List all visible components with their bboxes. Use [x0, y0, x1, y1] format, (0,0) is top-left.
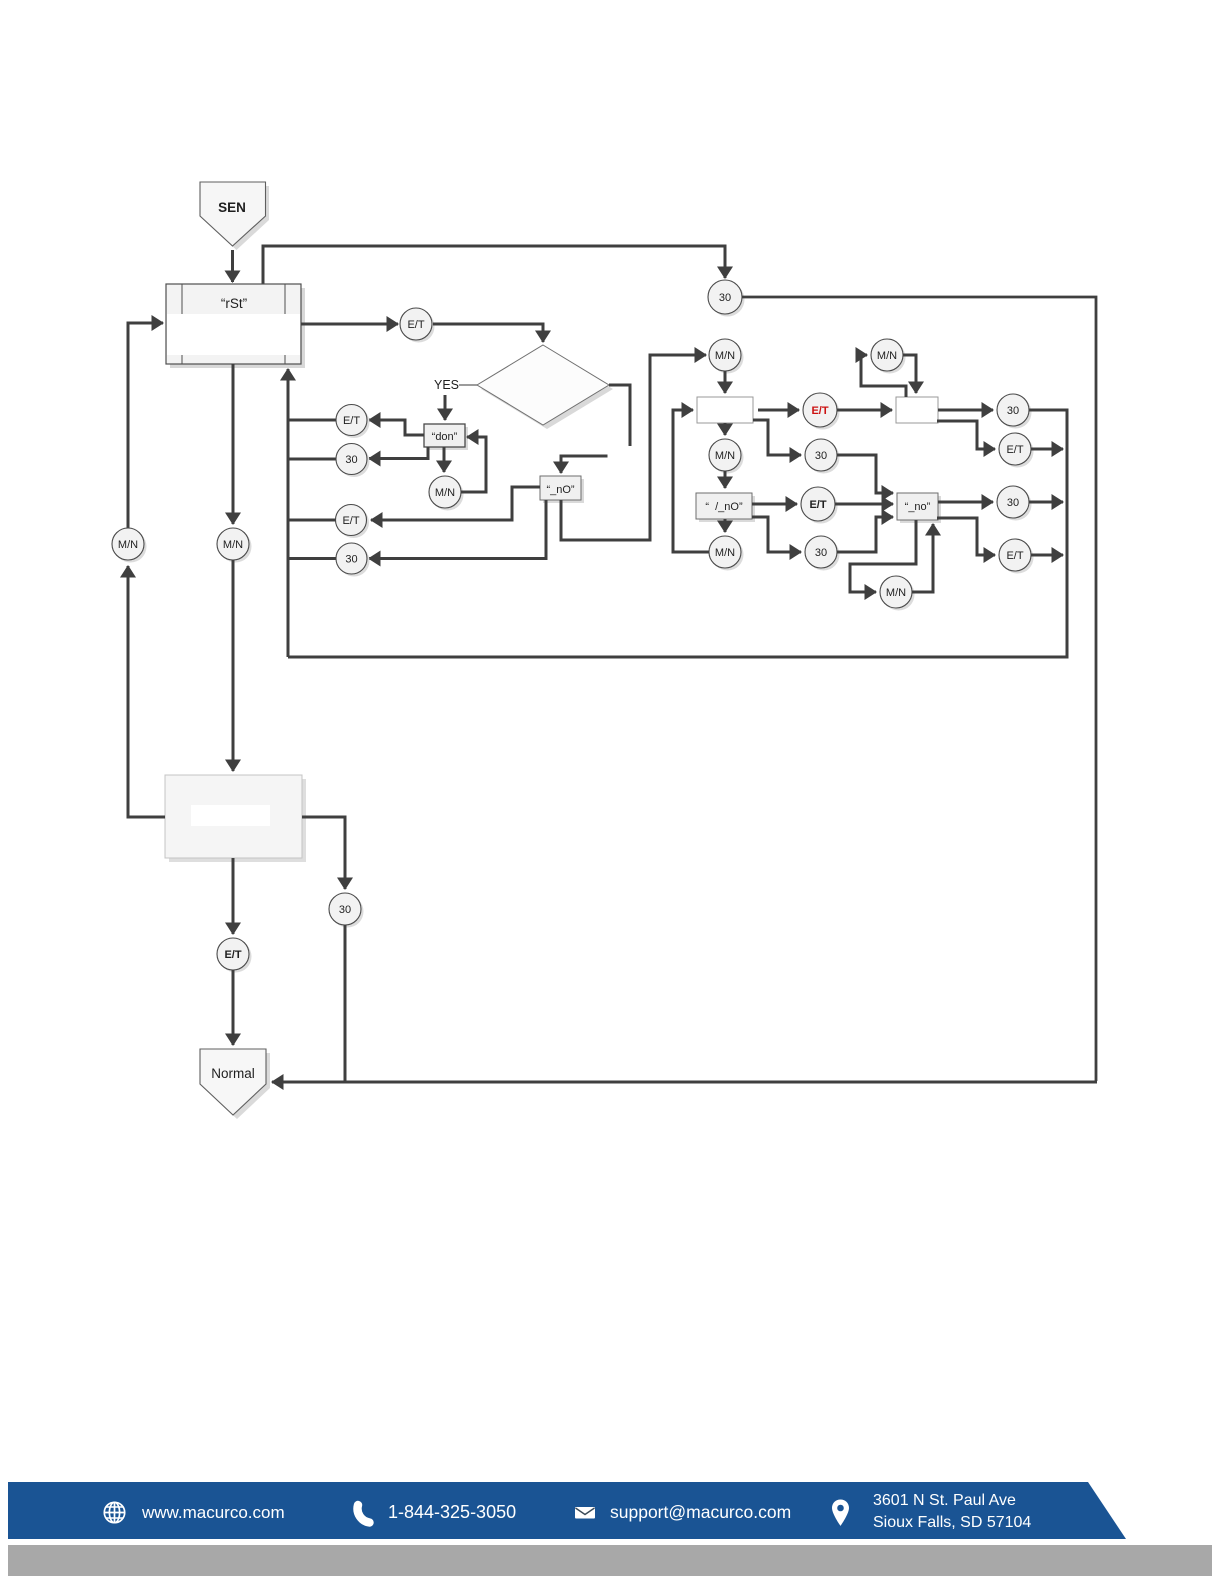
circle 30 mid [805, 439, 840, 474]
footer blue banner [8, 1482, 1126, 1539]
wire M/N low loop back to box1 [673, 410, 709, 552]
svg-text:“_no”: “_no” [905, 501, 931, 513]
wire E/T row2 to riser [288, 519, 336, 522]
svg-text:Normal: Normal [211, 1066, 255, 1081]
wire 30 row1 to riser [288, 458, 336, 461]
wire E/T row1 to riser [288, 419, 336, 422]
svg-text:30: 30 [815, 547, 827, 559]
wire don bottom to 30 row1 [369, 447, 428, 459]
circle M/N mid-left column [217, 528, 252, 563]
wire _no right to 30 [938, 501, 993, 504]
wire diamond right to "_nO" box [609, 385, 630, 446]
wire E/T down to Normal [232, 970, 235, 1045]
wire rSt-top loop to 30 [263, 246, 725, 284]
box "_nO" [540, 476, 584, 503]
wire box2 bottom to E/T right col [937, 421, 995, 449]
circle E/T right col row1 [999, 433, 1034, 468]
circle M/N low left of cluster [709, 536, 744, 571]
svg-text:E/T: E/T [224, 949, 241, 961]
wire E/T bold to _no [835, 503, 893, 506]
wire 30 top to far right rail to Normal [742, 297, 1096, 1081]
wire M/N down into box2 top [903, 355, 916, 393]
wire box2 to 30 [938, 409, 993, 412]
svg-text:30: 30 [345, 554, 357, 566]
svg-text:30: 30 [1007, 405, 1019, 417]
svg-text:YES: YES [434, 378, 459, 392]
wire 30 down to Normal rail [344, 925, 347, 1083]
wire M/N mid into box3 [724, 471, 727, 488]
wire don to E/T row1 [369, 420, 424, 435]
circle 30 row1 [336, 444, 370, 478]
circle E/T right of rSt [400, 308, 435, 343]
wire E/T to decision diamond [433, 324, 543, 342]
circle E/T red [803, 393, 840, 430]
svg-text:E/T: E/T [1006, 550, 1023, 562]
wire 30 into collector [1029, 501, 1063, 504]
svg-text:www.macurco.com: www.macurco.com [141, 1503, 285, 1522]
wire box3 bottom to M/N low [724, 519, 727, 532]
svg-text:30: 30 [719, 292, 731, 304]
circle E/T row1 [336, 405, 370, 439]
wire 30 mid to _no top left [837, 455, 893, 493]
svg-text:E/T: E/T [342, 515, 359, 527]
wire M/N down into box1 [724, 371, 727, 393]
wire E/T into collector [1031, 448, 1063, 451]
circle E/T right col row2 [999, 539, 1034, 574]
wire 30 low to _no bottom left [837, 517, 893, 552]
svg-text:“_nO”: “_nO” [546, 484, 574, 496]
node Normal (end pentagon) [200, 1049, 270, 1119]
svg-text:3601 N St. Paul Ave: 3601 N St. Paul Ave [873, 1492, 1016, 1509]
wire M/N loop back to don [461, 437, 486, 492]
riser wire up into rSt bottom [287, 369, 290, 657]
circle 30 top right [708, 280, 745, 317]
wire reset box left to M/N left riser [128, 566, 165, 817]
wire don to M/N [443, 447, 446, 472]
wire _no corner to E/T right col row2 [937, 518, 995, 555]
circle E/T row2 [336, 505, 370, 539]
svg-text:E/T: E/T [407, 319, 424, 331]
circle M/N under don [429, 476, 464, 511]
circle 30 right col row2 [997, 486, 1032, 521]
wire _nO to right riser to M/N [561, 355, 706, 540]
process box rSt [166, 284, 305, 368]
svg-text:“rSt”: “rSt” [221, 296, 247, 311]
wire _nO bottom to 30 row2 [369, 500, 546, 559]
wire box1 corner to 30 mid [753, 420, 801, 455]
svg-text:Sioux Falls, SD 57104: Sioux Falls, SD 57104 [873, 1514, 1031, 1531]
decision diamond [477, 345, 613, 429]
box "don" [424, 424, 468, 450]
wire E/T into collector [1031, 554, 1063, 557]
wire _no bottom loop to M/N [850, 520, 916, 592]
icon globe [104, 1502, 124, 1522]
svg-text:M/N: M/N [118, 539, 138, 551]
svg-text:M/N: M/N [715, 547, 735, 559]
circle M/N loop of box2 [871, 339, 906, 374]
svg-text:E/T: E/T [343, 415, 360, 427]
wire box3 to E/T bold [752, 503, 797, 506]
wire rSt right to E/T [301, 323, 398, 326]
svg-text:“don”: “don” [432, 431, 458, 443]
wire diamond left tip to YES [459, 384, 477, 386]
svg-text:E/T: E/T [1006, 444, 1023, 456]
wire red E/T to box2 [837, 409, 892, 412]
wire reset box bottom to E/T [232, 858, 235, 934]
wire SEN to rSt [231, 250, 234, 282]
svg-text:M/N: M/N [886, 587, 906, 599]
svg-text:M/N: M/N [435, 487, 455, 499]
footer gray bar [8, 1545, 1212, 1576]
svg-text:support@macurco.com: support@macurco.com [610, 1502, 791, 1522]
wire box2 loop up to M/N [861, 355, 906, 397]
circle 30 row2 [336, 543, 370, 577]
wire 30 to right collector and bottom rail to riser [288, 410, 1067, 657]
wire box1 to red E/T [758, 409, 799, 412]
svg-text:“ /_nO”: “ /_nO” [705, 501, 743, 513]
wire YES down to don [444, 395, 447, 420]
svg-text:30: 30 [815, 450, 827, 462]
svg-text:M/N: M/N [715, 450, 735, 462]
icon envelope [575, 1507, 595, 1519]
box3 quoted /_nO [696, 493, 755, 522]
icon location pin [832, 1500, 849, 1526]
svg-text:30: 30 [339, 904, 351, 916]
wire box1 bottom to M/N mid [724, 423, 727, 435]
wire box3 corner to 30 low [752, 517, 801, 552]
circle 30 low mid [805, 536, 840, 571]
svg-text:M/N: M/N [223, 539, 243, 551]
circle M/N top of right cluster [709, 339, 744, 374]
circle E/T above Normal [217, 938, 252, 973]
wire M/N up into _no bottom [912, 524, 933, 592]
circle E/T bold mid [801, 487, 838, 524]
box _no [897, 493, 941, 523]
wire _nO left to E/T row2 [371, 487, 540, 520]
circle M/N under _no [880, 576, 915, 611]
circle M/N left column [112, 528, 147, 563]
circle 30 lower [329, 893, 364, 928]
wire into rSt left [128, 323, 163, 528]
wire rail into Normal [272, 1081, 1097, 1084]
wire 30 row2 to riser [288, 557, 336, 560]
icon phone [358, 1505, 370, 1523]
wire reset box right to 30 [302, 817, 345, 889]
svg-text:SEN: SEN [218, 200, 246, 215]
wire rSt bottom to M/N mid-left [232, 364, 235, 524]
circle 30 right col row1 [997, 394, 1032, 429]
circle M/N mid right cluster [709, 439, 744, 474]
reset box (text removed) [165, 775, 306, 862]
box1 (blank) [697, 397, 753, 423]
node SEN (start pentagon) [200, 182, 269, 250]
svg-text:30: 30 [1007, 497, 1019, 509]
wire M/N down to reset box [232, 560, 235, 771]
svg-text:M/N: M/N [877, 350, 897, 362]
wire into _nO top [561, 456, 608, 473]
svg-text:1-844-325-3050: 1-844-325-3050 [388, 1502, 516, 1522]
svg-text:E/T: E/T [811, 405, 828, 417]
box2 (blank) [896, 397, 938, 423]
svg-text:M/N: M/N [715, 350, 735, 362]
svg-text:E/T: E/T [809, 499, 826, 511]
svg-text:30: 30 [345, 454, 357, 466]
